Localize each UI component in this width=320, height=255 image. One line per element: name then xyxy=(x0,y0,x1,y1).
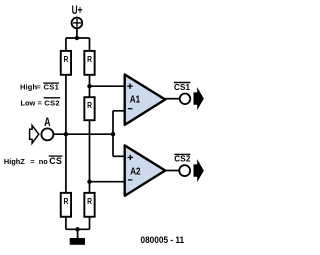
svg-text:R: R xyxy=(63,197,68,207)
svg-text:R: R xyxy=(87,55,92,65)
svg-text:CS2: CS2 xyxy=(44,98,60,107)
svg-text:R: R xyxy=(87,100,92,110)
svg-text:=: = xyxy=(36,82,41,91)
svg-text:=: = xyxy=(30,157,35,166)
svg-text:CS: CS xyxy=(49,156,62,166)
svg-text:CS2: CS2 xyxy=(174,155,191,164)
svg-text:no: no xyxy=(39,157,49,166)
svg-text:R: R xyxy=(63,55,68,65)
svg-text:High: High xyxy=(20,82,37,91)
svg-text:U+: U+ xyxy=(72,5,83,18)
svg-text:Low: Low xyxy=(21,98,36,107)
svg-text:A: A xyxy=(44,116,51,130)
svg-text:A1: A1 xyxy=(130,93,140,104)
svg-text:=: = xyxy=(38,98,43,107)
svg-text:High: High xyxy=(4,157,21,166)
svg-text:CS1: CS1 xyxy=(174,83,191,92)
svg-text:Z: Z xyxy=(20,157,25,166)
svg-text:R: R xyxy=(87,197,92,207)
svg-text:A2: A2 xyxy=(130,165,140,176)
svg-text:080005 - 11: 080005 - 11 xyxy=(141,234,185,245)
